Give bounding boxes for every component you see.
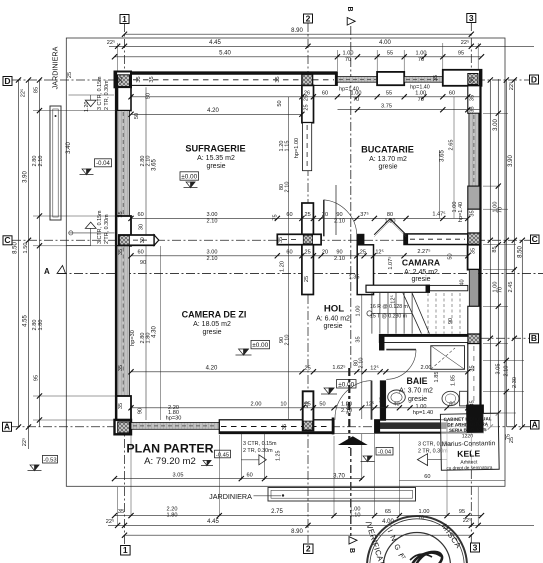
svg-text:85: 85	[492, 246, 498, 252]
svg-text:1.10: 1.10	[350, 512, 361, 518]
svg-text:2: 2	[306, 544, 311, 554]
bottom dim line row2	[108, 524, 534, 526]
right extension horizontals	[483, 112, 508, 114]
svg-text:35: 35	[471, 248, 477, 254]
svg-text:-0.04: -0.04	[378, 450, 392, 456]
axis 2 vertical	[307, 23, 309, 543]
svg-text:hp=30: hp=30	[130, 330, 136, 346]
svg-text:3 CTR, 0.15m: 3 CTR, 0.15m	[97, 210, 103, 244]
svg-text:hp=1.40: hp=1.40	[410, 85, 430, 91]
section line A-A	[58, 273, 543, 275]
svg-text:±0.00: ±0.00	[181, 174, 197, 181]
svg-text:12⁵: 12⁵	[390, 295, 397, 304]
svg-text:35: 35	[118, 403, 124, 409]
right wall column B hatch	[468, 334, 480, 344]
svg-text:gresie: gresie	[411, 276, 430, 283]
bottom wall window left	[131, 423, 219, 430]
svg-text:90: 90	[448, 318, 454, 324]
svg-text:A: A	[44, 267, 50, 276]
svg-text:70: 70	[498, 207, 504, 213]
svg-text:CAMARA: CAMARA	[402, 258, 440, 268]
benchmark -0.45	[201, 461, 213, 466]
axis B vertical heavy lower	[348, 368, 350, 448]
svg-text:gresie: gresie	[202, 329, 221, 336]
svg-text:2.65: 2.65	[449, 140, 455, 151]
box A right	[531, 421, 540, 430]
svg-text:1.20: 1.20	[84, 102, 90, 113]
svg-text:A: 2.45 m2: A: 2.45 m2	[404, 269, 438, 276]
top extension verticals	[117, 43, 119, 71]
camara top wall bar	[404, 234, 468, 245]
corner wall top-right	[443, 70, 482, 86]
svg-text:35: 35	[356, 336, 362, 342]
ticks bottom rows	[112, 513, 117, 518]
exterior steps left at C	[85, 222, 96, 228]
svg-text:3: 3	[473, 543, 478, 553]
benchmark hol	[321, 388, 337, 394]
svg-text:8.90: 8.90	[291, 529, 303, 535]
svg-text:B: B	[348, 548, 355, 553]
jardiniera left planter	[50, 106, 61, 220]
axis C horizontal	[12, 239, 530, 241]
svg-text:25: 25	[304, 366, 310, 372]
svg-text:SUFRAGERIE: SUFRAGERIE	[185, 144, 245, 154]
dimension labels rotated	[13, 72, 524, 446]
svg-text:C: C	[4, 235, 10, 245]
benchmark camera de zi	[236, 349, 252, 355]
svg-text:JARDINIERA: JARDINIERA	[51, 46, 60, 89]
svg-text:-0.04: -0.04	[96, 161, 110, 167]
entrance door leaf	[371, 381, 373, 420]
svg-text:SERIA B NR. 6225: SERIA B NR. 6225	[449, 427, 487, 433]
svg-text:3.05: 3.05	[173, 472, 184, 478]
svg-text:4.20: 4.20	[206, 366, 218, 372]
svg-text:gresie: gresie	[378, 164, 397, 171]
svg-text:D: D	[531, 74, 537, 84]
svg-text:22⁵: 22⁵	[107, 39, 116, 46]
baie wc tank	[460, 391, 468, 406]
svg-text:3 CTR, 0.15m: 3 CTR, 0.15m	[97, 76, 103, 110]
interior dim line sufragerie top	[131, 96, 480, 98]
baie sink	[388, 390, 406, 404]
top dim line 4.45/4.00	[109, 45, 534, 47]
svg-text:20: 20	[322, 212, 328, 218]
svg-text:40: 40	[460, 279, 466, 285]
door hol-bucatarie leaf	[323, 200, 325, 237]
svg-text:4.30: 4.30	[152, 326, 158, 338]
svg-text:hp=1.40: hp=1.40	[413, 410, 433, 416]
ticks terrace	[112, 476, 117, 481]
top wall pier column	[377, 72, 404, 85]
svg-text:50: 50	[277, 100, 283, 106]
svg-text:85: 85	[34, 87, 40, 93]
benchmark -0.04 bottom	[361, 456, 375, 462]
door baie swing	[386, 350, 416, 380]
baie wc bowl	[442, 391, 459, 405]
svg-text:20: 20	[322, 250, 328, 256]
right wall window kitchen	[469, 113, 479, 186]
kitchen door jamb column black	[357, 234, 364, 245]
svg-text:3.65: 3.65	[152, 159, 158, 171]
svg-text:35: 35	[275, 76, 281, 82]
right wall box below C	[468, 245, 480, 270]
svg-text:hp=1.40: hp=1.40	[339, 87, 359, 93]
ticks interior bottom row	[128, 405, 133, 410]
exterior steps top-left	[85, 100, 96, 106]
svg-text:35: 35	[118, 77, 124, 83]
entrance triangle marker	[338, 436, 368, 445]
svg-text:60: 60	[449, 91, 455, 97]
entrance door swing	[335, 381, 372, 420]
right wall window camara	[469, 270, 478, 307]
door baie leaf	[386, 349, 416, 351]
benchmark -0.04 left	[80, 169, 94, 175]
top wall centre dash	[133, 79, 334, 81]
svg-text:3.00: 3.00	[207, 250, 218, 256]
svg-text:50: 50	[319, 402, 325, 408]
svg-text:1: 1	[123, 545, 128, 555]
svg-text:95: 95	[34, 375, 40, 381]
left extension horizontals	[33, 110, 116, 112]
svg-text:60: 60	[286, 212, 292, 218]
top window kitchen left	[337, 77, 377, 83]
svg-text:75: 75	[273, 214, 279, 220]
svg-text:25: 25	[304, 401, 310, 407]
svg-text:1.50: 1.50	[23, 243, 29, 254]
C wall bar left stub	[119, 235, 154, 245]
ticks interior C rows	[128, 216, 133, 221]
svg-text:35: 35	[136, 76, 142, 82]
round stamp	[364, 516, 467, 563]
svg-text:A: 6.40 m2: A: 6.40 m2	[316, 316, 350, 323]
svg-text:2 TR, 0.30m: 2 TR, 0.30m	[104, 80, 110, 110]
interior dim line 3.75	[338, 109, 481, 111]
svg-text:35: 35	[118, 211, 124, 217]
svg-text:1.47⁵: 1.47⁵	[432, 211, 445, 218]
axis B flag bottom	[348, 537, 357, 553]
axis B flag top	[346, 7, 355, 26]
svg-text:A: 3.70 m2: A: 3.70 m2	[399, 388, 433, 395]
svg-text:B: B	[346, 7, 353, 12]
benchmark symbols	[28, 169, 375, 471]
box 2 bottom	[304, 544, 314, 554]
svg-text:50: 50	[146, 93, 152, 99]
svg-text:60: 60	[137, 250, 143, 256]
svg-text:A: A	[4, 422, 10, 432]
camara-stair wall	[366, 285, 429, 292]
svg-text:60: 60	[137, 212, 143, 218]
svg-text:gresie: gresie	[323, 323, 342, 330]
svg-text:40: 40	[393, 402, 399, 408]
svg-text:1.20: 1.20	[280, 261, 286, 272]
svg-text:2.10: 2.10	[285, 335, 291, 346]
svg-text:3.05: 3.05	[496, 364, 502, 375]
svg-text:A: A	[532, 419, 538, 429]
svg-text:8.50: 8.50	[13, 242, 19, 254]
svg-text:4.45: 4.45	[209, 40, 221, 46]
section marker A left	[44, 266, 66, 277]
interior dim row C upper	[131, 217, 468, 219]
ticks top rows	[122, 32, 127, 37]
svg-text:65: 65	[385, 509, 391, 515]
svg-text:22⁵: 22⁵	[20, 89, 27, 98]
right dim vertical lines	[489, 79, 491, 427]
svg-text:D: D	[4, 76, 10, 86]
interior dim row bottom	[131, 407, 468, 409]
box C right	[531, 235, 540, 244]
svg-text:gresie: gresie	[408, 396, 427, 403]
svg-text:35: 35	[118, 365, 124, 371]
left wall outer heavy edge	[115, 72, 117, 435]
svg-text:2.08⁵: 2.08⁵	[346, 401, 353, 414]
svg-text:25: 25	[509, 437, 515, 443]
svg-text:35: 35	[149, 76, 155, 82]
box 2 top	[304, 14, 313, 23]
svg-text:5.40: 5.40	[219, 50, 231, 56]
left dim vertical lines	[18, 80, 20, 427]
svg-text:1.25: 1.25	[276, 451, 282, 462]
svg-text:1: 1	[122, 14, 127, 24]
svg-text:3.00: 3.00	[207, 212, 218, 218]
svg-text:1.80: 1.80	[38, 320, 44, 331]
ticks interior hol row	[128, 369, 133, 374]
svg-text:3.70: 3.70	[333, 473, 345, 479]
svg-text:A: 15.35 m2: A: 15.35 m2	[197, 155, 235, 162]
svg-text:35: 35	[470, 210, 476, 216]
steps annotations	[84, 76, 452, 461]
svg-text:1.07⁵: 1.07⁵	[387, 256, 394, 269]
svg-text:70: 70	[418, 97, 424, 103]
svg-text:3.90: 3.90	[23, 171, 29, 183]
svg-text:2.10: 2.10	[38, 156, 44, 167]
svg-text:25: 25	[304, 104, 310, 110]
svg-text:1.00: 1.00	[452, 202, 458, 213]
svg-text:cu drept de semnatura: cu drept de semnatura	[446, 465, 492, 471]
ticks interior top	[128, 94, 133, 99]
svg-text:35: 35	[118, 249, 124, 255]
door hol-bucatarie swing	[324, 200, 357, 235]
box D right	[530, 75, 539, 84]
top wall end tick	[335, 72, 337, 86]
top dim line 8.90	[125, 33, 472, 35]
svg-text:25: 25	[67, 72, 73, 78]
svg-text:-0.45: -0.45	[216, 452, 229, 458]
svg-text:1.00: 1.00	[415, 91, 426, 97]
svg-text:4.45: 4.45	[207, 519, 219, 525]
dimension labels horizontal	[106, 28, 472, 535]
svg-text:15 T @ 0.280 m: 15 T @ 0.280 m	[370, 314, 407, 320]
centre wall column mid	[302, 203, 314, 295]
svg-text:70: 70	[353, 97, 359, 103]
svg-text:±0.00: ±0.00	[252, 342, 268, 349]
svg-text:12⁵: 12⁵	[366, 400, 375, 407]
axis 3 vertical	[470, 22, 472, 543]
svg-text:60: 60	[286, 250, 292, 256]
interior dim line 4.20 top	[131, 113, 302, 115]
axis B vertical	[350, 26, 352, 368]
box B right	[530, 334, 539, 343]
svg-text:1.00: 1.00	[343, 50, 354, 56]
svg-text:90: 90	[336, 212, 342, 218]
svg-text:8.50: 8.50	[518, 246, 524, 258]
ticks left	[16, 77, 21, 82]
corner bottom-right black	[467, 405, 484, 433]
svg-text:Marius-Constantin: Marius-Constantin	[442, 440, 496, 448]
svg-text:35: 35	[470, 95, 476, 101]
svg-text:2: 2	[306, 13, 311, 23]
interior dim row C lower	[131, 255, 468, 257]
top wall heavy outer edge	[115, 72, 338, 75]
svg-text:2 TR, 0.30m: 2 TR, 0.30m	[243, 448, 273, 454]
svg-text:A: 18.05 m2: A: 18.05 m2	[193, 321, 231, 328]
svg-text:PLAN PARTER: PLAN PARTER	[126, 442, 213, 456]
box 1 top	[120, 15, 129, 24]
bottom wall column axis2 hatch	[303, 421, 313, 430]
svg-text:95: 95	[459, 509, 465, 515]
svg-text:60: 60	[246, 473, 252, 479]
box 3 top	[467, 14, 476, 23]
svg-text:1.15: 1.15	[285, 141, 291, 152]
svg-text:3.00: 3.00	[493, 119, 499, 131]
left wall window upper	[117, 111, 130, 216]
stair walk line	[367, 311, 372, 316]
svg-text:2.30: 2.30	[512, 377, 518, 388]
ticks right	[488, 77, 493, 82]
svg-text:30: 30	[140, 237, 146, 243]
svg-text:22⁵: 22⁵	[461, 39, 470, 46]
box D left	[3, 77, 12, 86]
bottom wall baie segment	[334, 432, 375, 434]
svg-text:KELE: KELE	[457, 448, 480, 458]
entrance steps arrow right	[259, 455, 266, 465]
svg-text:10: 10	[280, 402, 286, 408]
svg-text:22⁵: 22⁵	[508, 82, 515, 91]
right wall outer heavy edge	[479, 70, 482, 433]
svg-text:90: 90	[140, 260, 146, 266]
right wall column C hatch	[468, 233, 480, 245]
centre wall column bottom	[303, 391, 314, 430]
svg-text:16 R @ 0.128 m: 16 R @ 0.128 m	[370, 304, 408, 310]
svg-text:35: 35	[278, 237, 284, 243]
svg-text:3.75: 3.75	[381, 104, 392, 110]
terrace dim line	[115, 478, 362, 480]
svg-text:C: C	[532, 234, 538, 244]
centre wall column top	[302, 85, 314, 122]
right wall seg above C	[468, 209, 480, 233]
svg-text:A: 79.20 m2: A: 79.20 m2	[144, 456, 196, 467]
svg-text:hp=1.00: hp=1.00	[294, 138, 300, 158]
svg-text:1.85: 1.85	[434, 372, 440, 383]
svg-text:37⁵: 37⁵	[360, 211, 369, 218]
svg-text:25: 25	[360, 250, 366, 256]
bottom extension verticals	[117, 487, 119, 526]
box 3 bottom	[471, 543, 480, 552]
svg-text:CAMERA DE ZI: CAMERA DE ZI	[182, 310, 247, 320]
svg-text:1.85: 1.85	[451, 375, 457, 386]
interior vertical centre x288	[288, 97, 290, 419]
baie top wall	[379, 334, 468, 342]
svg-text:hp=1.40: hp=1.40	[458, 202, 464, 222]
top wall band	[115, 72, 338, 86]
svg-text:3.65: 3.65	[440, 150, 446, 162]
architect stamp box	[440, 405, 499, 471]
svg-text:22⁵: 22⁵	[21, 438, 28, 447]
svg-text:2.10: 2.10	[504, 366, 510, 377]
box C left	[3, 236, 12, 245]
svg-text:80: 80	[387, 212, 393, 218]
stair treads	[372, 293, 412, 334]
bottom dim line row1	[115, 515, 482, 517]
svg-text:50: 50	[134, 113, 140, 119]
svg-text:2.00: 2.00	[251, 402, 262, 408]
svg-text:8.90: 8.90	[291, 28, 303, 34]
svg-text:4.00: 4.00	[379, 40, 391, 46]
corner column top-left	[115, 72, 132, 88]
svg-text:2.45: 2.45	[508, 282, 514, 293]
svg-text:60: 60	[322, 91, 328, 97]
axis D horizontal	[12, 79, 530, 81]
svg-text:22⁵: 22⁵	[463, 517, 472, 524]
svg-text:90: 90	[336, 250, 342, 256]
bottom dim line 8.90	[125, 534, 472, 536]
box 1 bottom	[121, 546, 131, 556]
left wall column below corner	[118, 87, 132, 110]
svg-text:12⁵: 12⁵	[375, 249, 384, 256]
svg-text:3: 3	[469, 13, 474, 23]
svg-text:1220: 1220	[462, 433, 473, 439]
benchmark -0.53	[28, 465, 42, 471]
C wall bar centre	[277, 234, 321, 244]
svg-text:50: 50	[448, 253, 454, 259]
baie left wall lower	[380, 381, 386, 421]
svg-text:hp=30: hp=30	[166, 415, 182, 421]
jardiniera bottom planter	[268, 488, 416, 502]
left wall column C	[117, 216, 132, 246]
interior vertical stair x361.8	[361, 295, 363, 419]
right wall seg baie	[468, 344, 480, 413]
axis B horizontal right	[384, 337, 529, 339]
svg-text:55: 55	[386, 91, 392, 97]
column axis2 top	[302, 74, 313, 85]
svg-text:35: 35	[470, 106, 476, 112]
shower tray	[431, 346, 465, 370]
svg-text:25: 25	[304, 250, 310, 256]
svg-text:2.00: 2.00	[421, 365, 432, 371]
svg-text:35: 35	[433, 75, 439, 81]
svg-text:gresie: gresie	[206, 163, 225, 170]
svg-text:35: 35	[118, 509, 124, 515]
svg-text:25: 25	[304, 276, 310, 282]
svg-text:1.62⁵: 1.62⁵	[332, 364, 345, 371]
svg-text:1.00: 1.00	[416, 50, 427, 56]
door camara bifold	[374, 219, 406, 235]
benchmark sufragerie	[184, 182, 198, 188]
right wall seg below window	[468, 306, 480, 334]
svg-text:25: 25	[304, 212, 310, 218]
svg-text:25: 25	[380, 397, 386, 403]
stair treads dashed beyond break	[428, 293, 460, 334]
svg-text:90: 90	[138, 408, 144, 414]
entrance steps arrow left	[417, 454, 427, 466]
stair break lines	[403, 293, 422, 334]
svg-text:2.10: 2.10	[334, 218, 345, 224]
svg-text:22⁵: 22⁵	[106, 518, 115, 525]
svg-text:2.10: 2.10	[359, 358, 365, 369]
svg-text:2.75: 2.75	[271, 509, 283, 515]
svg-text:95: 95	[458, 50, 464, 56]
top window kitchen right	[404, 77, 443, 83]
svg-text:35: 35	[470, 77, 476, 83]
